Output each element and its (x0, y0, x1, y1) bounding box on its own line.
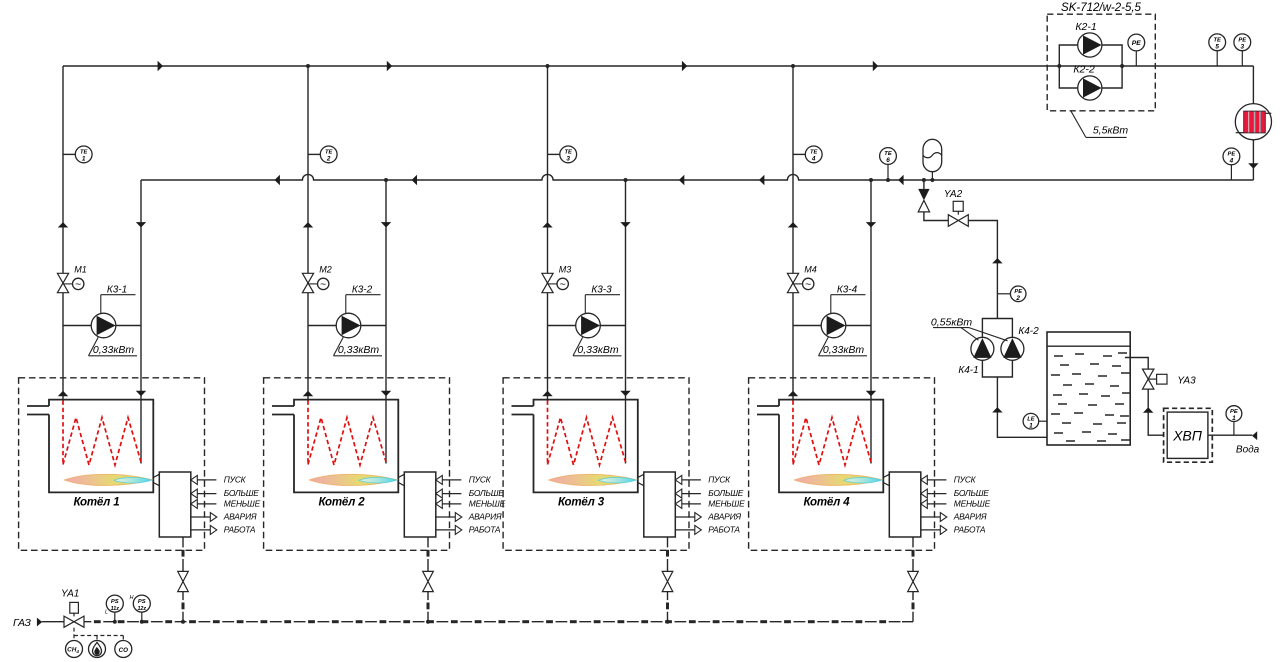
svg-text:M1: M1 (74, 265, 87, 275)
expansion vessel (923, 139, 942, 180)
svg-text:L: L (105, 610, 108, 616)
svg-text:CO: CO (119, 647, 128, 654)
boiler 2 signal АВАРИЯ (436, 512, 502, 522)
svg-text:ГАЗ: ГАЗ (13, 617, 31, 629)
boiler 2 signal БОЛЬШЕ (436, 488, 504, 498)
flame detector (89, 641, 106, 658)
svg-text:0,33кВт: 0,33кВт (823, 344, 864, 356)
svg-text:2: 2 (1015, 295, 1020, 302)
gas inlet pipe (42, 621, 64, 623)
label K3-4 with leader (831, 284, 866, 314)
boiler 1 supply riser pipe (62, 66, 64, 400)
boiler 1 signal РАБОТА (191, 525, 256, 535)
svg-text:БОЛЬШЕ: БОЛЬШЕ (708, 488, 743, 498)
boiler 2 signal ПУСК (436, 475, 492, 485)
boiler 4 heating coil (red dashed) (793, 401, 871, 466)
svg-text:РАБОТА: РАБОТА (708, 525, 740, 535)
boiler 2 downcomer flow arrows (381, 222, 391, 396)
pump line boiler 1 (63, 325, 141, 327)
motorized valve M3 (542, 265, 571, 293)
boiler 1 heating coil (red dashed) (63, 401, 141, 466)
svg-text:МЕНЬШЕ: МЕНЬШЕ (708, 499, 745, 509)
svg-text:2: 2 (326, 156, 331, 163)
svg-text:К4-2: К4-2 (1018, 326, 1039, 337)
solenoid valve YA3 (1143, 369, 1197, 389)
label K3-1 with leader (101, 284, 136, 314)
boiler 1 gas drop pipe (182, 537, 184, 622)
boiler 4 supply riser pipe (792, 66, 794, 400)
boiler 2 burner nozzle lines (398, 474, 404, 485)
label 0,55kW with leaders (931, 317, 1008, 341)
tank water level dashes (1051, 353, 1131, 441)
boiler 2 signal РАБОТА (436, 525, 501, 535)
gas analyzer CO (115, 641, 132, 658)
boiler 3 signal МЕНЬШЕ (675, 499, 745, 509)
svg-text:МЕНЬШЕ: МЕНЬШЕ (954, 499, 991, 509)
boiler 3 riser flow arrows (542, 222, 552, 396)
gas junction dot boiler 1 (181, 620, 185, 624)
gas analyzer CH4 (66, 641, 83, 658)
pump K3-4 (821, 313, 846, 338)
pump K4-2 (1001, 326, 1039, 360)
boiler 3 burner control box (644, 472, 676, 537)
water inlet arrow (1252, 431, 1257, 440)
svg-text:ПУСК: ПУСК (224, 475, 247, 485)
svg-text:К2-2: К2-2 (1073, 64, 1095, 76)
boiler 3 return downcomer pipe (625, 180, 627, 464)
label 0,33kW pump 2 with leader (334, 337, 383, 356)
boiler 4 dashed enclosure box (749, 378, 935, 551)
svg-text:M3: M3 (559, 265, 572, 275)
boiler 3 burner nozzle lines (638, 474, 644, 485)
temperature sensor TE6 (880, 148, 897, 180)
supply header junction dots (306, 64, 795, 68)
svg-text:ПУСК: ПУСК (954, 475, 977, 485)
boiler 3 downcomer flow arrows (620, 222, 630, 396)
svg-text:К4-1: К4-1 (958, 365, 978, 376)
svg-text:3: 3 (566, 156, 570, 163)
svg-text:К3-1: К3-1 (107, 284, 127, 295)
pressure sensor PE2 (997, 286, 1026, 302)
svg-text:БОЛЬШЕ: БОЛЬШЕ (224, 488, 259, 498)
supply header flow arrows (158, 61, 879, 71)
boiler 2 signal МЕНЬШЕ (436, 499, 506, 509)
svg-text:К2-1: К2-1 (1075, 21, 1096, 33)
temperature sensor TE5 (1209, 34, 1226, 66)
tank outlet pipe to YA3 (1125, 358, 1164, 436)
level sensor LE1 (1023, 413, 1047, 429)
svg-text:6: 6 (886, 157, 890, 164)
svg-text:АВАРИЯ: АВАРИЯ (707, 512, 741, 522)
solenoid valve YA1 (61, 589, 84, 628)
pump K2-1 (1075, 21, 1102, 57)
svg-text:M4: M4 (804, 265, 817, 275)
label K3-2 with leader (346, 284, 381, 314)
svg-text:~: ~ (75, 279, 81, 291)
boiler 3 supply riser pipe (547, 66, 549, 400)
pressure sensor PE1 (1226, 406, 1242, 436)
svg-text:РАБОТА: РАБОТА (954, 525, 986, 535)
svg-text:0,55кВт: 0,55кВт (931, 317, 972, 329)
boiler 2 gas drop pipe (427, 537, 429, 622)
boiler 1 body (27, 400, 153, 493)
svg-text:Котёл 1: Котёл 1 (74, 497, 120, 509)
boiler 1 burner control box (159, 472, 191, 537)
svg-text:11z: 11z (111, 606, 120, 612)
gas pressure sensor PS12z (130, 595, 151, 624)
boiler 2 dashed enclosure box (264, 378, 450, 551)
svg-text:АВАРИЯ: АВАРИЯ (223, 512, 257, 522)
motorized valve M4 (787, 265, 816, 293)
pump line boiler 3 (548, 325, 626, 327)
svg-text:YA2: YA2 (944, 189, 963, 200)
svg-text:ПУСК: ПУСК (469, 475, 492, 485)
svg-text:Котёл 4: Котёл 4 (804, 497, 851, 509)
svg-text:К3-3: К3-3 (591, 284, 612, 295)
pump K3-3 (576, 313, 601, 338)
pump line boiler 4 (793, 325, 871, 327)
boiler 1 signal АВАРИЯ (191, 512, 257, 522)
svg-text:БОЛЬШЕ: БОЛЬШЕ (469, 488, 504, 498)
boiler 4 signal БОЛЬШЕ (921, 488, 989, 498)
return header flow arrows (275, 175, 904, 185)
feed line flow arrow up (992, 258, 1002, 263)
boiler 3 heating coil (red dashed) (548, 401, 626, 466)
temperature sensor TE2 (308, 146, 337, 163)
svg-text:SK-712/w-2-5,5: SK-712/w-2-5,5 (1061, 2, 1142, 14)
svg-text:4: 4 (1229, 158, 1234, 165)
flow arrow into return header (1248, 163, 1258, 168)
solenoid valve YA2 (944, 189, 968, 226)
boiler 1 dashed enclosure box (19, 378, 205, 551)
boiler 3 signal БОЛЬШЕ (675, 488, 743, 498)
pump group junction dots (1057, 64, 1124, 68)
pipe from supply corner to heat consumer (1252, 66, 1254, 180)
boiler 3 gas shutoff valve (662, 571, 673, 581)
svg-text:0,33кВт: 0,33кВт (93, 344, 134, 356)
gas analyzers dashed branch (74, 628, 123, 641)
gas header pipe (84, 621, 913, 623)
svg-text:МЕНЬШЕ: МЕНЬШЕ (224, 499, 261, 509)
svg-text:YA1: YA1 (61, 589, 79, 600)
boiler 1 signal МЕНЬШЕ (191, 499, 261, 509)
svg-text:К3-4: К3-4 (837, 284, 858, 295)
svg-text:1: 1 (1029, 422, 1033, 429)
svg-text:Н: Н (130, 595, 134, 601)
boiler 4 burner flame (794, 474, 882, 485)
city water inlet pipe (1208, 434, 1252, 436)
boiler 4 burner control box (889, 472, 921, 537)
heat consumer (radiator) symbol (1235, 104, 1271, 140)
boiler 4 return downcomer pipe (870, 180, 872, 464)
svg-text:Вода: Вода (1236, 444, 1260, 455)
boiler 4 gas shutoff valve (908, 571, 919, 581)
pump group dashed box (1047, 14, 1155, 111)
feed suction flow arrow (992, 407, 1002, 412)
supply header pipe (63, 65, 1253, 67)
boiler 3 signal РАБОТА (675, 525, 740, 535)
gas header marks (94, 620, 886, 623)
svg-text:4: 4 (811, 156, 816, 163)
pump line boiler 2 (308, 325, 386, 327)
pump K2-2 (1073, 64, 1102, 101)
svg-text:1: 1 (1232, 415, 1236, 422)
svg-text:ПУСК: ПУСК (708, 475, 731, 485)
return header pipe with line hops (141, 174, 1253, 180)
boiler 2 body (272, 400, 398, 493)
svg-text:PS: PS (138, 599, 146, 605)
label K3-3 with leader (585, 284, 620, 314)
water feed flow arrow (1143, 407, 1153, 412)
feed pump parallel loop piping (982, 319, 1047, 438)
boiler 4 signal АВАРИЯ (921, 512, 987, 522)
pump K4-1 (958, 337, 994, 376)
svg-text:РАБОТА: РАБОТА (469, 525, 501, 535)
boiler 3 signal АВАРИЯ (675, 512, 741, 522)
svg-text:К3-2: К3-2 (352, 284, 373, 295)
boiler 4 body (757, 400, 883, 493)
pump K3-1 (91, 313, 116, 338)
boiler 4 gas drop pipe (912, 537, 914, 622)
water storage tank (1047, 332, 1130, 445)
boiler 1 burner flame (64, 474, 152, 485)
return header junction dots (384, 178, 934, 182)
boiler 4 burner nozzle lines (883, 474, 889, 485)
boiler 1 riser flow arrows (58, 222, 68, 396)
boiler 1 return downcomer pipe (140, 180, 142, 464)
pressure sensor PE4 (1223, 148, 1240, 180)
boiler 4 signal ПУСК (921, 475, 977, 485)
boiler 3 burner flame (549, 474, 637, 485)
boiler 2 heating coil (red dashed) (308, 401, 386, 466)
svg-text:АВАРИЯ: АВАРИЯ (468, 512, 502, 522)
svg-text:5: 5 (1215, 44, 1219, 51)
svg-text:0,33кВт: 0,33кВт (577, 344, 618, 356)
boiler 1 burner nozzle lines (153, 474, 159, 485)
boiler 2 burner control box (404, 472, 436, 537)
svg-text:БОЛЬШЕ: БОЛЬШЕ (954, 488, 989, 498)
motorized valve M1 (57, 265, 86, 293)
boiler 3 gas drop pipe (667, 537, 669, 622)
svg-text:Котёл 2: Котёл 2 (319, 497, 366, 509)
boiler 4 signal МЕНЬШЕ (921, 499, 991, 509)
boiler 3 signal ПУСК (675, 475, 731, 485)
water treatment unit XVP (1164, 408, 1213, 462)
pump K3-2 (336, 313, 361, 338)
svg-text:~: ~ (320, 279, 326, 291)
svg-text:PE: PE (1132, 40, 1142, 47)
svg-text:3: 3 (1241, 44, 1245, 51)
svg-text:PS: PS (111, 599, 119, 605)
boiler 3 dashed enclosure box (503, 378, 689, 551)
svg-text:АВАРИЯ: АВАРИЯ (953, 512, 987, 522)
boiler 1 gas shutoff valve (178, 571, 189, 581)
boiler 1 signal ПУСК (191, 475, 247, 485)
boiler 2 riser flow arrows (303, 222, 313, 396)
boiler 1 signal БОЛЬШЕ (191, 488, 259, 498)
boiler 1 downcomer flow arrows (136, 222, 146, 396)
svg-text:0,33кВт: 0,33кВт (338, 344, 379, 356)
boiler 2 supply riser pipe (307, 66, 309, 400)
svg-text:5,5кВт: 5,5кВт (1093, 125, 1129, 137)
svg-text:12z: 12z (137, 606, 146, 612)
label 5,5kW with leader (1071, 111, 1129, 138)
boiler 4 signal РАБОТА (921, 525, 986, 535)
temperature sensor TE3 (548, 146, 577, 163)
svg-text:РАБОТА: РАБОТА (224, 525, 256, 535)
boiler 2 burner flame (309, 474, 397, 485)
gas junction dot boiler 3 (666, 620, 670, 624)
temperature sensor TE1 (63, 146, 92, 163)
gas junction dot boiler 2 (426, 620, 430, 624)
boiler 2 return downcomer pipe (385, 180, 387, 464)
make-up feed pipe to return header (924, 180, 998, 319)
pressure sensor PE in pump group (1128, 34, 1145, 66)
boiler 3 body (512, 400, 638, 493)
gas pressure sensor PS11z (105, 595, 123, 624)
svg-text:МЕНЬШЕ: МЕНЬШЕ (469, 499, 506, 509)
boiler 2 gas shutoff valve (423, 571, 434, 581)
pump group parallel loop piping (1059, 45, 1122, 88)
pressure sensor PE3 (1234, 34, 1251, 66)
svg-text:1: 1 (82, 156, 86, 163)
label 0,33kW pump 3 with leader (573, 337, 622, 356)
svg-text:ХВП: ХВП (1172, 427, 1203, 443)
check valve (918, 189, 929, 212)
gas inlet arrow (37, 618, 42, 627)
svg-text:~: ~ (560, 279, 566, 291)
temperature sensor TE4 (793, 146, 822, 163)
boiler 4 downcomer flow arrows (866, 222, 876, 396)
motorized valve M2 (302, 265, 331, 293)
label 0,33kW pump 4 with leader (819, 337, 868, 356)
svg-text:Котёл 3: Котёл 3 (558, 497, 605, 509)
boiler 4 riser flow arrows (788, 222, 798, 396)
svg-text:M2: M2 (319, 265, 332, 275)
svg-text:~: ~ (805, 279, 811, 291)
svg-text:YA3: YA3 (1177, 375, 1196, 386)
label 0,33kW pump 1 with leader (89, 337, 138, 356)
